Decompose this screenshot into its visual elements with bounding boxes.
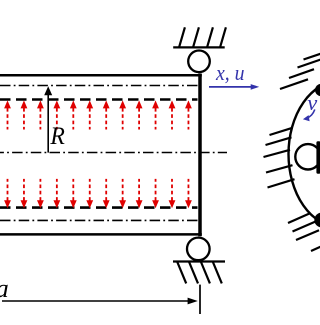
svg-text:a: a	[0, 273, 9, 303]
svg-text:v: v	[307, 90, 317, 115]
svg-text:R: R	[49, 123, 64, 150]
svg-text:x, u: x, u	[215, 60, 244, 85]
